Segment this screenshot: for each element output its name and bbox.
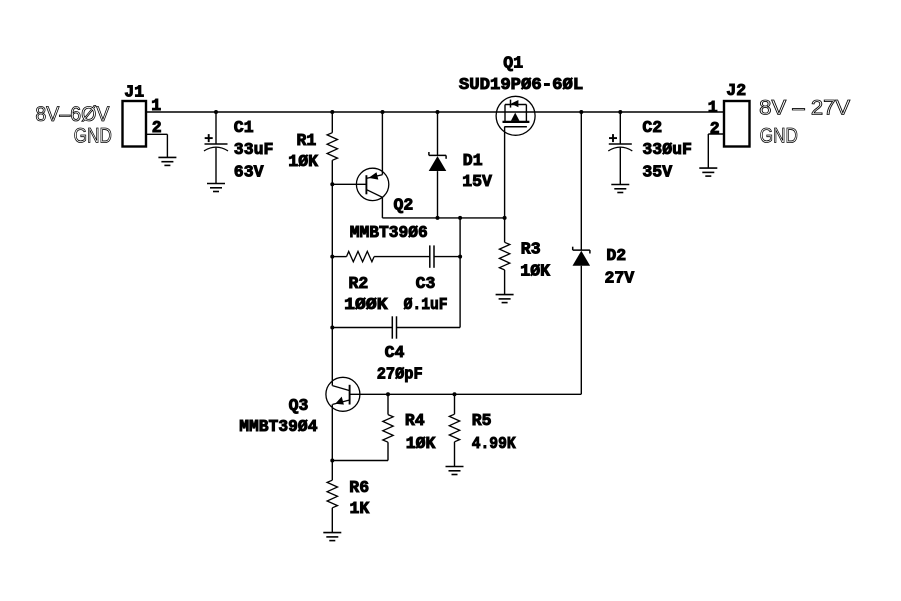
svg-text:8V – 27V: 8V – 27V [759, 97, 850, 120]
svg-text:15V: 15V [462, 172, 492, 191]
svg-text:SUD19PØ6-6ØL: SUD19PØ6-6ØL [459, 75, 583, 94]
svg-text:J2: J2 [726, 81, 746, 100]
svg-text:1ØØK: 1ØØK [344, 295, 388, 314]
svg-text:33uF: 33uF [234, 140, 274, 159]
svg-text:1: 1 [708, 98, 718, 117]
svg-text:2: 2 [710, 119, 720, 138]
svg-text:R4: R4 [405, 411, 425, 430]
svg-text:35V: 35V [642, 163, 672, 182]
svg-text:MMBT39Ø4: MMBT39Ø4 [239, 417, 317, 436]
svg-text:4.99K: 4.99K [472, 434, 516, 453]
svg-text:Q2: Q2 [394, 196, 414, 215]
svg-text:Q1: Q1 [503, 54, 523, 73]
svg-text:Q3: Q3 [289, 396, 309, 415]
svg-text:1ØK: 1ØK [520, 262, 550, 281]
svg-text:R2: R2 [349, 274, 369, 293]
svg-text:27V: 27V [605, 269, 635, 288]
svg-text:8V–6ØV: 8V–6ØV [35, 103, 109, 126]
svg-text:27ØpF: 27ØpF [377, 365, 423, 384]
svg-text:J1: J1 [124, 82, 144, 101]
svg-text:GND: GND [74, 125, 112, 148]
svg-text:C2: C2 [642, 118, 662, 137]
svg-text:R1: R1 [297, 131, 317, 150]
svg-text:1K: 1K [350, 499, 370, 518]
svg-text:1ØK: 1ØK [406, 434, 436, 453]
svg-text:C3: C3 [416, 274, 436, 293]
svg-text:D2: D2 [606, 246, 626, 265]
svg-text:Ø.1uF: Ø.1uF [404, 295, 448, 314]
svg-text:1ØK: 1ØK [288, 152, 318, 171]
svg-text:63V: 63V [234, 163, 264, 182]
svg-text:2: 2 [152, 118, 162, 137]
svg-text:R3: R3 [521, 239, 541, 258]
svg-text:MMBT39Ø6: MMBT39Ø6 [350, 223, 428, 242]
svg-text:C1: C1 [234, 118, 254, 137]
svg-text:R5: R5 [472, 411, 492, 430]
svg-text:R6: R6 [349, 478, 369, 497]
svg-text:33ØuF: 33ØuF [642, 140, 692, 159]
svg-text:D1: D1 [463, 151, 483, 170]
svg-text:1: 1 [151, 96, 161, 115]
svg-text:C4: C4 [385, 343, 405, 362]
svg-text:GND: GND [760, 125, 798, 148]
